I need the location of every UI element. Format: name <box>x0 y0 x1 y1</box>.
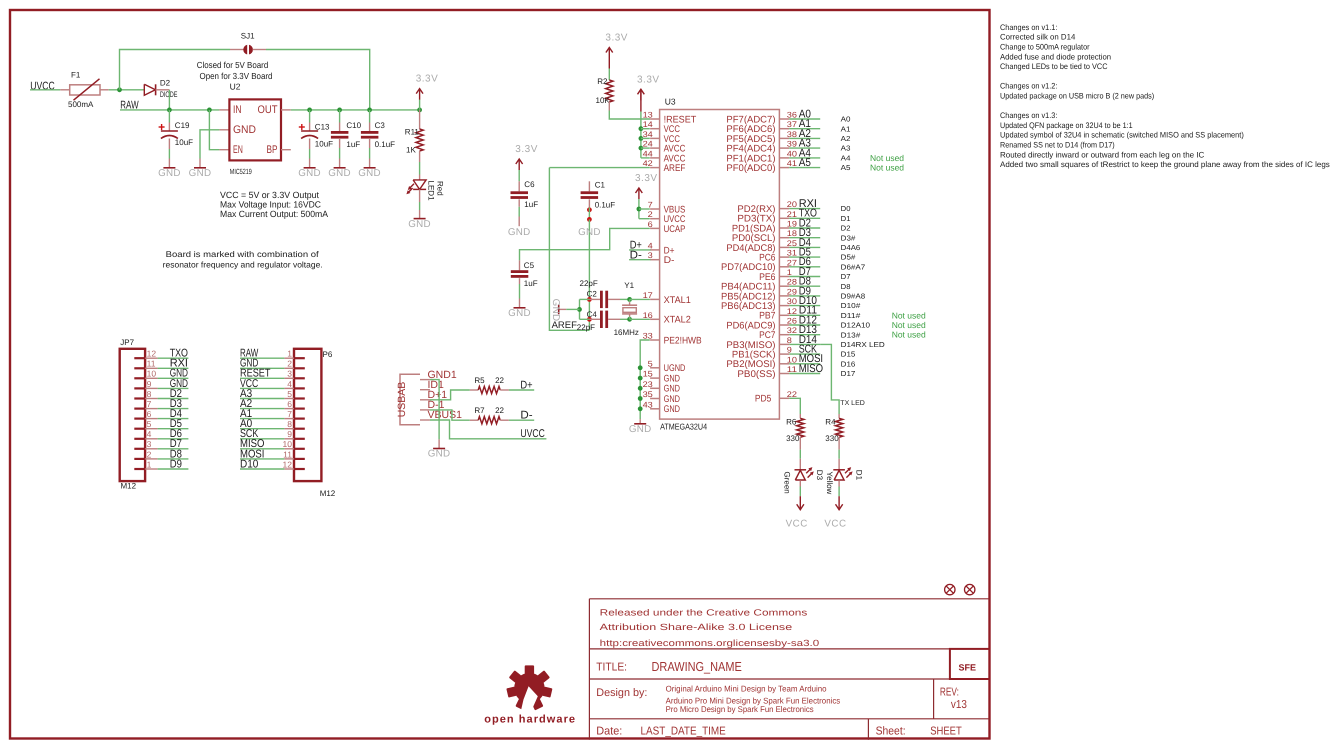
svg-text:GND: GND <box>158 168 181 179</box>
svg-text:XTAL1: XTAL1 <box>664 295 691 306</box>
svg-text:D+: D+ <box>520 379 533 391</box>
svg-text:R2: R2 <box>597 77 608 86</box>
svg-text:GND: GND <box>408 219 431 230</box>
svg-text:27: 27 <box>787 258 798 267</box>
svg-text:Updated QFN package on 32U4 to: Updated QFN package on 32U4 to be 1:1 <box>1000 121 1133 130</box>
svg-text:8: 8 <box>787 336 793 345</box>
svg-text:D-: D- <box>630 249 642 261</box>
svg-text:1uF: 1uF <box>524 279 538 288</box>
svg-text:D2: D2 <box>160 79 171 88</box>
svg-text:10uF: 10uF <box>175 138 193 147</box>
svg-text:R5: R5 <box>474 376 485 385</box>
svg-text:Design by:: Design by: <box>596 687 647 699</box>
svg-text:Not used: Not used <box>870 163 904 173</box>
svg-text:EN: EN <box>233 144 243 156</box>
svg-text:24: 24 <box>643 140 654 149</box>
svg-text:39: 39 <box>787 140 798 149</box>
svg-text:22: 22 <box>787 390 798 399</box>
svg-text:resonator frequency and regula: resonator frequency and regulator voltag… <box>163 260 323 270</box>
svg-text:3: 3 <box>648 251 654 260</box>
svg-text:REV:: REV: <box>940 687 959 699</box>
svg-text:D3: D3 <box>815 470 824 481</box>
svg-text:1: 1 <box>287 349 292 359</box>
svg-text:35: 35 <box>643 390 654 399</box>
svg-text:11: 11 <box>787 365 798 374</box>
svg-text:U2: U2 <box>230 82 241 92</box>
svg-text:10: 10 <box>787 355 798 364</box>
svg-text:37: 37 <box>787 120 798 129</box>
svg-text:Corrected silk on D14: Corrected silk on D14 <box>1000 33 1076 42</box>
svg-text:GND: GND <box>328 168 351 179</box>
svg-text:VCC = 5V or 3.3V Output: VCC = 5V or 3.3V Output <box>220 190 319 200</box>
svg-text:Released under the Creative Co: Released under the Creative Commons <box>600 607 808 617</box>
svg-text:R4: R4 <box>825 418 836 427</box>
svg-text:14: 14 <box>643 120 654 129</box>
svg-text:3.3V: 3.3V <box>605 33 628 44</box>
svg-text:33: 33 <box>643 332 654 341</box>
svg-text:29: 29 <box>787 287 798 296</box>
svg-text:D2: D2 <box>841 224 851 233</box>
svg-text:C3: C3 <box>375 121 386 130</box>
svg-text:A2: A2 <box>841 134 851 143</box>
svg-text:Max Current Output: 500mA: Max Current Output: 500mA <box>220 209 328 219</box>
svg-text:11: 11 <box>147 359 156 369</box>
svg-text:D12A10: D12A10 <box>841 321 870 330</box>
svg-text:D9#A8: D9#A8 <box>841 292 866 301</box>
svg-text:Changes on v1.1:: Changes on v1.1: <box>1000 23 1057 32</box>
svg-text:Updated package on USB micro B: Updated package on USB micro B (2 new pa… <box>1000 92 1155 101</box>
svg-text:12: 12 <box>787 307 798 316</box>
svg-text:16: 16 <box>643 311 654 320</box>
svg-text:GND: GND <box>428 449 451 460</box>
svg-text:D1: D1 <box>841 214 851 223</box>
svg-text:DRAWING_NAME: DRAWING_NAME <box>652 659 743 674</box>
svg-text:D6#A7: D6#A7 <box>841 262 866 271</box>
svg-text:Max Voltage Input: 16VDC: Max Voltage Input: 16VDC <box>220 200 321 210</box>
svg-text:GND: GND <box>508 227 531 238</box>
svg-text:5: 5 <box>287 389 292 399</box>
svg-text:Attribution Share-Alike 3.0 Li: Attribution Share-Alike 3.0 License <box>600 622 793 632</box>
svg-text:open hardware: open hardware <box>484 714 576 726</box>
svg-text:40: 40 <box>787 149 798 158</box>
svg-text:C19: C19 <box>175 121 190 130</box>
svg-text:SFE: SFE <box>959 662 977 672</box>
svg-text:6: 6 <box>287 399 292 409</box>
svg-text:Routed directly inward or outw: Routed directly inward or outward from e… <box>1000 150 1205 159</box>
svg-text:A1: A1 <box>841 124 851 133</box>
svg-text:BP: BP <box>267 144 278 156</box>
svg-text:D3#: D3# <box>841 233 856 242</box>
svg-text:VCC: VCC <box>786 519 808 530</box>
svg-text:3: 3 <box>147 439 152 449</box>
svg-text:PB0(SS): PB0(SS) <box>737 369 775 380</box>
svg-text:20: 20 <box>787 200 798 209</box>
svg-text:GND: GND <box>358 168 381 179</box>
svg-text:7: 7 <box>648 201 654 210</box>
svg-text:Changed LEDs to be tied to VCC: Changed LEDs to be tied to VCC <box>1000 62 1108 71</box>
svg-text:R6: R6 <box>786 418 797 427</box>
svg-text:5: 5 <box>147 419 152 429</box>
svg-text:D-: D- <box>664 255 675 266</box>
svg-text:PD5: PD5 <box>755 394 771 405</box>
svg-text:C2: C2 <box>587 290 598 299</box>
svg-text:13: 13 <box>643 111 654 120</box>
svg-text:Change to 500mA regulator: Change to 500mA regulator <box>1000 43 1090 52</box>
svg-text:A5: A5 <box>841 163 851 172</box>
svg-text:Open for 3.3V Board: Open for 3.3V Board <box>200 71 273 81</box>
svg-text:26: 26 <box>787 317 798 326</box>
svg-text:Sheet:: Sheet: <box>876 726 906 738</box>
svg-text:21: 21 <box>787 210 798 219</box>
svg-text:3.3V: 3.3V <box>637 74 660 85</box>
svg-text:16MHz: 16MHz <box>614 328 639 337</box>
svg-text:7: 7 <box>147 399 152 409</box>
svg-text:Red: Red <box>436 181 445 196</box>
svg-text:1K: 1K <box>406 146 416 155</box>
svg-text:3.3V: 3.3V <box>416 74 439 85</box>
svg-text:D8: D8 <box>841 282 851 291</box>
svg-text:D-: D- <box>520 410 532 422</box>
svg-text:Changes on v1.2:: Changes on v1.2: <box>1000 82 1057 91</box>
svg-text:30: 30 <box>787 297 798 306</box>
svg-text:Date:: Date: <box>596 726 622 738</box>
svg-text:JP7: JP7 <box>120 338 134 347</box>
svg-text:D9: D9 <box>170 458 182 470</box>
svg-text:9: 9 <box>287 429 292 439</box>
svg-text:330: 330 <box>825 434 839 443</box>
svg-text:GND: GND <box>629 424 652 435</box>
svg-text:Added fuse and diode protectio: Added fuse and diode protection <box>1000 52 1111 61</box>
svg-text:R11: R11 <box>405 128 420 137</box>
svg-text:GND: GND <box>189 168 212 179</box>
svg-text:MIC5219: MIC5219 <box>230 167 252 176</box>
svg-text:10: 10 <box>147 369 157 379</box>
svg-text:2: 2 <box>287 359 292 369</box>
svg-text:D4A6: D4A6 <box>841 243 861 252</box>
svg-text:22pF: 22pF <box>580 279 598 288</box>
svg-text:23: 23 <box>643 380 654 389</box>
svg-text:4: 4 <box>287 379 292 389</box>
svg-text:34: 34 <box>643 130 654 139</box>
svg-text:D17: D17 <box>841 369 856 378</box>
svg-text:P6: P6 <box>323 350 333 359</box>
svg-text:A4: A4 <box>841 154 851 163</box>
svg-text:D14RX LED: D14RX LED <box>841 340 885 349</box>
svg-text:GND: GND <box>550 299 561 322</box>
svg-text:Renamed SS net to D14 (from D1: Renamed SS net to D14 (from D17) <box>1000 141 1115 150</box>
svg-text:TITLE:: TITLE: <box>596 661 627 673</box>
svg-text:GND: GND <box>578 227 601 238</box>
svg-text:A5: A5 <box>799 157 811 169</box>
svg-text:10K: 10K <box>596 96 611 105</box>
svg-text:C10: C10 <box>346 121 361 130</box>
svg-text:D15: D15 <box>841 350 856 359</box>
svg-text:1: 1 <box>787 268 793 277</box>
svg-text:10: 10 <box>283 439 293 449</box>
svg-text:9: 9 <box>787 346 793 355</box>
svg-text:3.3V: 3.3V <box>515 144 538 155</box>
svg-text:1uF: 1uF <box>524 200 538 209</box>
svg-text:D10: D10 <box>240 458 258 470</box>
svg-text:D7: D7 <box>841 272 851 281</box>
svg-text:Updated symbol of 32U4 in sche: Updated symbol of 32U4 in schematic (swi… <box>1000 131 1244 140</box>
svg-text:Not used: Not used <box>892 320 926 330</box>
svg-text:UCAP: UCAP <box>664 224 686 235</box>
svg-text:F1: F1 <box>71 71 81 80</box>
svg-text:330: 330 <box>786 434 800 443</box>
svg-text:PE2!HWB: PE2!HWB <box>664 335 702 346</box>
svg-text:15: 15 <box>643 370 654 379</box>
svg-text:D11#: D11# <box>841 311 861 320</box>
svg-text:10uF: 10uF <box>315 139 333 148</box>
svg-text:Green: Green <box>783 472 792 494</box>
svg-text:MISO: MISO <box>799 363 824 375</box>
svg-text:M12: M12 <box>121 482 137 491</box>
svg-text:42: 42 <box>643 159 654 168</box>
svg-text:Not used: Not used <box>892 310 926 320</box>
svg-text:U3: U3 <box>665 97 676 107</box>
svg-text:17: 17 <box>643 291 654 300</box>
svg-text:DIODE: DIODE <box>160 90 178 99</box>
svg-text:C4: C4 <box>587 310 598 319</box>
svg-text:GND: GND <box>233 124 256 136</box>
svg-text:D16: D16 <box>841 359 856 368</box>
svg-text:2: 2 <box>147 449 152 459</box>
svg-text:7: 7 <box>287 409 292 419</box>
svg-text:Y1: Y1 <box>624 281 634 290</box>
svg-text:Closed for 5V Board: Closed for 5V Board <box>197 60 269 70</box>
svg-text:28: 28 <box>787 278 798 287</box>
svg-text:22pF: 22pF <box>577 323 595 332</box>
svg-text:D1: D1 <box>855 470 864 481</box>
svg-text:0.1uF: 0.1uF <box>595 201 616 210</box>
svg-text:4: 4 <box>648 241 654 250</box>
svg-text:12: 12 <box>147 349 157 359</box>
svg-text:v13: v13 <box>951 699 967 711</box>
svg-text:8: 8 <box>287 419 292 429</box>
svg-text:6: 6 <box>648 220 654 229</box>
svg-text:36: 36 <box>787 111 798 120</box>
svg-text:TX LED: TX LED <box>840 400 865 407</box>
svg-text:22: 22 <box>495 376 504 385</box>
svg-text:D10#: D10# <box>841 301 861 310</box>
svg-text:R7: R7 <box>474 406 485 415</box>
svg-text:C5: C5 <box>524 261 535 270</box>
svg-text:25: 25 <box>787 239 798 248</box>
svg-text:AREF: AREF <box>664 163 686 174</box>
svg-text:5: 5 <box>648 359 654 368</box>
svg-text:PF0(ADC0): PF0(ADC0) <box>726 163 775 174</box>
svg-text:LED1: LED1 <box>427 181 436 202</box>
svg-text:AREF: AREF <box>552 320 578 331</box>
svg-text:D0: D0 <box>841 204 851 213</box>
svg-text:3: 3 <box>287 369 292 379</box>
svg-text:19: 19 <box>787 220 798 229</box>
svg-text:9: 9 <box>147 379 152 389</box>
svg-text:M12: M12 <box>320 489 336 498</box>
svg-text:32: 32 <box>787 326 798 335</box>
svg-text:OUT: OUT <box>258 104 278 116</box>
svg-text:8: 8 <box>147 389 152 399</box>
svg-text:3.3V: 3.3V <box>635 173 658 184</box>
svg-text:11: 11 <box>283 449 292 459</box>
svg-text:2: 2 <box>648 210 654 219</box>
svg-text:A0: A0 <box>841 115 851 124</box>
svg-text:38: 38 <box>787 130 798 139</box>
svg-text:Original Arduino Mini Design b: Original Arduino Mini Design by Team Ard… <box>666 683 827 693</box>
svg-text:SJ1: SJ1 <box>241 31 255 40</box>
svg-text:LAST_DATE_TIME: LAST_DATE_TIME <box>641 726 727 738</box>
svg-text:ATMEGA32U4: ATMEGA32U4 <box>660 422 707 432</box>
svg-text:USBAB: USBAB <box>396 382 408 418</box>
svg-text:1: 1 <box>147 459 152 469</box>
svg-text:Added two small squares of tRe: Added two small squares of tRestrict to … <box>1000 160 1330 169</box>
svg-text:Yellow: Yellow <box>825 472 834 495</box>
svg-text:GND: GND <box>508 308 531 319</box>
svg-text:6: 6 <box>147 409 152 419</box>
svg-text:0.1uF: 0.1uF <box>375 140 396 149</box>
svg-text:Changes on v1.3:: Changes on v1.3: <box>1000 111 1057 120</box>
svg-text:43: 43 <box>643 400 654 409</box>
svg-text:XTAL2: XTAL2 <box>664 315 691 326</box>
svg-text:500mA: 500mA <box>68 100 94 109</box>
svg-text:Not used: Not used <box>892 330 926 340</box>
svg-text:A3: A3 <box>841 144 851 153</box>
svg-text:GND: GND <box>298 168 321 179</box>
svg-text:VCC: VCC <box>824 519 846 530</box>
svg-text:Not used: Not used <box>870 153 904 163</box>
svg-text:http:creativecommons.orglicens: http:creativecommons.orglicensesby-sa3.0 <box>600 638 820 648</box>
svg-text:UVCC: UVCC <box>520 428 544 440</box>
svg-text:41: 41 <box>787 159 798 168</box>
svg-text:D13#: D13# <box>841 330 861 339</box>
svg-text:4: 4 <box>147 429 152 439</box>
svg-text:GND: GND <box>664 404 680 415</box>
svg-text:18: 18 <box>787 229 798 238</box>
svg-text:Board is marked with combinati: Board is marked with combination of <box>166 249 320 259</box>
svg-text:IN: IN <box>233 104 242 116</box>
svg-text:44: 44 <box>643 149 654 158</box>
svg-text:SHEET: SHEET <box>930 726 962 738</box>
svg-text:12: 12 <box>283 459 293 469</box>
svg-text:1uF: 1uF <box>346 140 360 149</box>
svg-text:C1: C1 <box>595 181 606 190</box>
svg-text:22: 22 <box>495 406 504 415</box>
svg-text:C13: C13 <box>315 122 330 131</box>
svg-text:Pro Micro Design by Spark Fun: Pro Micro Design by Spark Fun Electronic… <box>666 704 814 714</box>
svg-text:31: 31 <box>787 249 798 258</box>
svg-text:D5#: D5# <box>841 253 856 262</box>
svg-text:C6: C6 <box>524 180 535 189</box>
